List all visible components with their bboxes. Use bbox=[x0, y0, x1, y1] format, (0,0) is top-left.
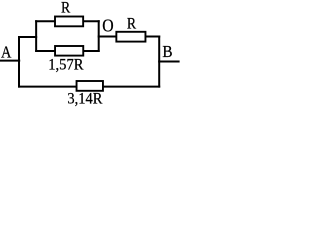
svg-text:R: R bbox=[127, 16, 136, 33]
resistor R2 bbox=[116, 32, 145, 42]
wire left link bbox=[19, 36, 36, 38]
wire right bus bbox=[158, 37, 160, 87]
wire 1.57R left lead bbox=[36, 50, 55, 52]
wire 1.57R right lead bbox=[83, 50, 98, 52]
wire mid bus bbox=[98, 21, 100, 51]
wire bottom rail left bbox=[19, 86, 77, 88]
wire node O lead bbox=[99, 36, 117, 38]
wire R2 right lead bbox=[145, 36, 159, 38]
svg-text:O: O bbox=[102, 16, 113, 36]
resistor 1,57R bbox=[55, 46, 83, 56]
svg-text:R: R bbox=[61, 0, 70, 17]
wire A lead bbox=[0, 60, 19, 62]
wire left bus bbox=[18, 37, 20, 87]
resistor R1 bbox=[55, 17, 83, 27]
svg-text:A: A bbox=[1, 42, 12, 61]
resistor 3,14R bbox=[77, 81, 103, 91]
wire bottom rail right bbox=[103, 86, 159, 88]
svg-text:B: B bbox=[162, 42, 172, 61]
wire R1 right lead bbox=[83, 20, 99, 22]
svg-text:3,14R: 3,14R bbox=[67, 90, 103, 107]
wire R1 left lead bbox=[36, 20, 55, 22]
svg-text:1,57R: 1,57R bbox=[48, 56, 84, 73]
wire B lead bbox=[159, 61, 178, 63]
wire split bus bbox=[35, 21, 37, 51]
